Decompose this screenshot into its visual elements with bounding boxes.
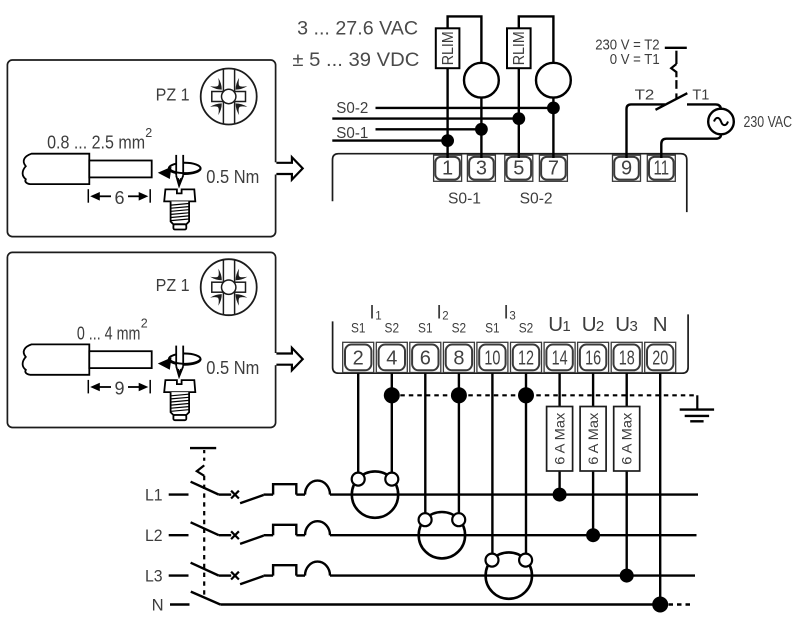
- junction dot terminal 12 / earth: [518, 387, 534, 403]
- svg-text:U: U: [615, 313, 630, 336]
- terminal 12: [511, 342, 542, 372]
- wire terminal 1: [446, 68, 448, 158]
- svg-text:0 ... 4 mm: 0 ... 4 mm: [77, 323, 140, 343]
- breaker linkage dashes top: [203, 450, 205, 465]
- wire from terminal 8: [458, 373, 460, 513]
- svg-text:S0-2: S0-2: [520, 191, 553, 208]
- svg-text:7: 7: [548, 158, 559, 180]
- junction dot terminal 14 voltage tap: [553, 488, 567, 502]
- current transformer on L2: [419, 512, 465, 558]
- svg-text:S2: S2: [385, 320, 400, 336]
- dashed N continuation: [669, 603, 695, 605]
- terminal 16: [578, 342, 609, 372]
- terminal 18: [611, 342, 642, 372]
- svg-text:6: 6: [420, 347, 431, 369]
- svg-text:6: 6: [114, 188, 124, 208]
- switch blade N: [191, 592, 221, 605]
- svg-text:11: 11: [654, 158, 670, 180]
- svg-text:2: 2: [145, 126, 152, 140]
- wire terminal 3: [480, 98, 482, 158]
- wire insulation: [23, 154, 90, 184]
- resistor RLIM 1: [436, 28, 460, 68]
- breaker magnetic element L1: [305, 481, 330, 495]
- breaker blade 2 L2: [240, 536, 263, 544]
- svg-text:0.5 Nm: 0.5 Nm: [206, 167, 259, 187]
- svg-text:S1: S1: [351, 320, 366, 336]
- svg-text:2: 2: [596, 318, 604, 335]
- wire L1: [264, 493, 274, 495]
- svg-text:5: 5: [513, 158, 524, 180]
- wire bracket over RLIM 2: [519, 16, 554, 63]
- svg-text:± 5 ... 39 VDC: ± 5 ... 39 VDC: [292, 49, 419, 71]
- wire from terminal 4: [391, 373, 393, 473]
- junction dot terminal 5: [512, 112, 525, 125]
- svg-text:RLIM: RLIM: [440, 31, 457, 65]
- pozidriv screw head icon: [201, 259, 257, 315]
- earth dashed wire: [392, 394, 698, 396]
- wire L3: [264, 574, 274, 576]
- svg-text:20: 20: [652, 347, 668, 369]
- svg-text:S0-1: S0-1: [448, 191, 481, 208]
- breaker contact x L3: [231, 572, 239, 580]
- wire L1: [296, 493, 305, 495]
- junction dot terminal 3 / S0-1: [475, 123, 488, 136]
- svg-text:16: 16: [585, 347, 601, 369]
- breaker linkage kink: [197, 465, 204, 475]
- breaker thermal element L3: [273, 565, 296, 575]
- wire L2 to right: [330, 534, 697, 536]
- svg-text:1: 1: [442, 158, 453, 180]
- svg-text:3: 3: [630, 318, 638, 335]
- wire N: [220, 603, 660, 605]
- svg-text:8: 8: [453, 347, 464, 369]
- current transformer on L1: [352, 471, 398, 517]
- S0-1 wire C: [376, 128, 482, 130]
- terminal 1: [434, 155, 462, 181]
- wire source to terminal 11: [661, 134, 721, 158]
- svg-text:2: 2: [141, 317, 148, 331]
- junction dot terminal 20 / N: [652, 597, 668, 613]
- terminal 8: [443, 342, 474, 372]
- terminal 20: [645, 342, 676, 372]
- svg-text:S2: S2: [519, 320, 534, 336]
- current transformer on L3: [486, 552, 532, 598]
- breaker disconnect blade L2: [191, 522, 219, 535]
- wire fuse 2 to line: [592, 471, 594, 535]
- svg-text:6 A Max: 6 A Max: [586, 412, 601, 464]
- wire from terminal 6: [424, 373, 426, 513]
- svg-text:I: I: [369, 302, 374, 323]
- svg-text:2: 2: [442, 310, 448, 322]
- svg-text:N: N: [653, 313, 668, 336]
- svg-text:0.8 ... 2.5 mm: 0.8 ... 2.5 mm: [47, 133, 145, 153]
- junction dot terminal 1: [441, 134, 454, 147]
- ground symbol: [680, 395, 714, 421]
- strip length dimension: [88, 380, 150, 394]
- terminal 4: [376, 342, 407, 372]
- meter body outline (top terminal strip): [333, 154, 687, 212]
- svg-text:S0-1: S0-1: [336, 125, 368, 142]
- fuse 6A Max 2: [580, 407, 606, 472]
- S0 receiver circle 2: [536, 63, 571, 98]
- wire terminal 7: [552, 98, 554, 158]
- strip length dimension: [88, 189, 150, 203]
- svg-text:9: 9: [114, 379, 124, 399]
- wire L3: [296, 574, 305, 576]
- wire T2 contact to terminal 9: [627, 104, 666, 158]
- torque arrowhead: [158, 358, 172, 370]
- wire L1 to right: [330, 493, 698, 495]
- terminal 5: [505, 155, 533, 181]
- breaker thermal element L2: [273, 525, 296, 535]
- breaker linkage bar: [190, 447, 216, 449]
- svg-text:S0-2: S0-2: [336, 100, 368, 117]
- svg-text:S2: S2: [452, 320, 467, 336]
- screwdriver with torque arrow: [169, 163, 201, 174]
- wire N stub: [170, 603, 190, 605]
- instruction box border: [7, 252, 275, 427]
- svg-text:0.5 Nm: 0.5 Nm: [206, 358, 259, 378]
- exit arrow: [276, 157, 302, 179]
- wire L2: [264, 534, 274, 536]
- svg-text:U: U: [582, 313, 597, 336]
- terminal screw: [164, 380, 195, 392]
- terminal 7: [539, 155, 567, 181]
- S0-2 wire B: [332, 117, 519, 119]
- svg-text:I: I: [436, 302, 441, 323]
- svg-text:T1: T1: [692, 88, 709, 104]
- svg-text:230 VAC: 230 VAC: [744, 114, 793, 131]
- meter body outline (bottom terminal strip): [333, 314, 688, 373]
- svg-text:U: U: [548, 313, 563, 336]
- wire from terminal 18: [626, 373, 628, 406]
- tariff switch linkage: [671, 51, 676, 98]
- junction dot terminal 18 voltage tap: [620, 569, 634, 583]
- junction dot terminal 7 / S0-2: [547, 102, 560, 115]
- svg-text:RLIM: RLIM: [511, 31, 528, 65]
- svg-text:PZ 1: PZ 1: [156, 275, 190, 295]
- svg-text:9: 9: [621, 158, 632, 180]
- wire L1 stub: [169, 493, 189, 495]
- terminal 6: [410, 342, 441, 372]
- svg-text:L2: L2: [145, 526, 163, 545]
- svg-text:12: 12: [518, 347, 534, 369]
- AC source 230 VAC: [708, 109, 734, 135]
- svg-text:14: 14: [552, 347, 568, 369]
- svg-text:3: 3: [476, 158, 487, 180]
- wire L3 to right: [330, 574, 695, 576]
- tariff switch blade: [656, 93, 688, 110]
- svg-text:6 A Max: 6 A Max: [620, 412, 635, 464]
- svg-text:I: I: [504, 302, 509, 323]
- svg-text:1: 1: [375, 310, 381, 322]
- svg-text:4: 4: [386, 347, 397, 369]
- breaker disconnect blade L3: [191, 563, 219, 576]
- fuse 6A Max 3: [614, 407, 640, 472]
- svg-text:6 A Max: 6 A Max: [552, 412, 567, 464]
- wire L3 stub: [169, 574, 189, 576]
- tariff switch actuator bar: [665, 47, 687, 49]
- svg-text:L1: L1: [145, 485, 163, 504]
- breaker contact x L1: [231, 491, 239, 499]
- breaker thermal element L1: [273, 484, 296, 494]
- screwdriver with torque arrow: [169, 354, 201, 365]
- breaker blade 2 L1: [240, 495, 263, 503]
- wire from terminal 14: [558, 373, 560, 406]
- wire fuse 1 to line: [558, 471, 560, 495]
- svg-text:2: 2: [353, 347, 364, 369]
- terminal 10: [477, 342, 508, 372]
- wire stripped conductor: [89, 161, 151, 178]
- exit arrow: [276, 348, 302, 370]
- torque arrowhead: [158, 167, 172, 179]
- breaker disconnect blade L1: [191, 482, 219, 495]
- wire from terminal 12: [525, 373, 527, 554]
- svg-text:T2: T2: [635, 88, 655, 104]
- wire L3: [219, 574, 231, 576]
- wire from terminal 2: [357, 373, 359, 473]
- junction dot terminal 8 / earth: [451, 387, 467, 403]
- junction dot terminal 16 voltage tap: [586, 528, 600, 542]
- wire fuse 3 to line: [626, 471, 628, 576]
- wire T1 contact to source: [687, 104, 721, 110]
- wire insulation: [23, 344, 90, 374]
- svg-text:3 ... 27.6 VAC: 3 ... 27.6 VAC: [297, 17, 418, 39]
- terminal screw: [164, 189, 195, 201]
- wire from terminal 20: [659, 373, 661, 604]
- wire L2: [219, 534, 231, 536]
- svg-text:S1: S1: [418, 320, 433, 336]
- S0-1 wire D: [332, 139, 447, 141]
- svg-text:18: 18: [619, 347, 635, 369]
- S0 receiver circle 1: [464, 63, 499, 98]
- svg-text:L3: L3: [145, 566, 163, 585]
- wire from terminal 16: [592, 373, 594, 406]
- wire bracket over RLIM 1: [448, 16, 482, 63]
- wire terminal 5: [518, 68, 520, 158]
- breaker magnetic element L2: [305, 521, 330, 535]
- terminal 9: [613, 155, 641, 181]
- wire L1: [219, 493, 231, 495]
- junction dot terminal 4 / earth: [384, 387, 400, 403]
- breaker magnetic element L3: [305, 562, 330, 576]
- svg-text:10: 10: [484, 347, 500, 369]
- resistor RLIM 2: [507, 28, 531, 68]
- wire stripped conductor: [89, 351, 151, 368]
- breaker contact x L2: [231, 531, 239, 539]
- wire L2 stub: [169, 534, 189, 536]
- terminal 2: [343, 342, 374, 372]
- breaker linkage dashed: [203, 476, 205, 598]
- instruction box border: [7, 60, 275, 237]
- svg-text:0 V = T1: 0 V = T1: [610, 52, 660, 68]
- svg-text:PZ 1: PZ 1: [156, 84, 190, 104]
- S0-2 wire A: [376, 107, 554, 109]
- terminal 14: [544, 342, 575, 372]
- terminal 3: [467, 155, 495, 181]
- pozidriv screw head icon: [201, 69, 257, 125]
- fuse 6A Max 1: [547, 407, 573, 472]
- wire from terminal 10: [491, 373, 493, 554]
- svg-text:N: N: [152, 596, 164, 615]
- wire L2: [296, 534, 305, 536]
- svg-text:3: 3: [509, 310, 515, 322]
- terminal 11: [647, 155, 675, 181]
- svg-text:1: 1: [562, 318, 570, 335]
- svg-text:S1: S1: [485, 320, 500, 336]
- breaker blade 2 L3: [240, 576, 263, 584]
